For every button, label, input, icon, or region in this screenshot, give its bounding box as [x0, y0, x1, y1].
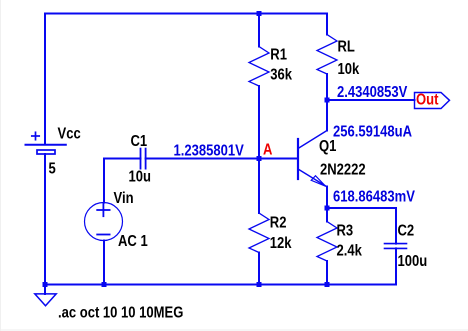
- junction node A: [257, 156, 262, 161]
- junction emitter node: [325, 206, 330, 211]
- svg-text:618.86483mV: 618.86483mV: [333, 189, 415, 206]
- junction bottom R2: [257, 282, 262, 287]
- resistor RL zigzag: [317, 35, 337, 75]
- resistor RL lead bottom: [326, 74, 328, 100]
- svg-text:1.2385801V: 1.2385801V: [174, 143, 245, 160]
- junction bottom Vin: [102, 282, 107, 287]
- junction out node: [325, 98, 330, 103]
- svg-text:256.59148uA: 256.59148uA: [333, 124, 412, 141]
- svg-text:RL: RL: [338, 39, 356, 56]
- resistor R3 zigzag: [317, 222, 337, 262]
- svg-text:36k: 36k: [270, 67, 292, 84]
- transistor Q1 base bar: [297, 139, 299, 179]
- capacitor C1 plate right: [145, 149, 147, 169]
- svg-text:10k: 10k: [338, 61, 360, 78]
- svg-text:AC 1: AC 1: [118, 233, 148, 250]
- emitter wire vertical: [326, 187, 328, 209]
- resistor R3 lead top: [326, 208, 328, 222]
- wire Vin top: [104, 159, 141, 203]
- junction bottom R3: [325, 282, 330, 287]
- junction bottom ground: [43, 282, 48, 287]
- svg-text:Vin: Vin: [114, 190, 134, 207]
- battery plus sign: [32, 132, 39, 139]
- svg-text:2.4340853V: 2.4340853V: [337, 84, 408, 101]
- svg-text:5: 5: [49, 161, 56, 178]
- wire top rail: [45, 13, 327, 15]
- wire Vin bottom: [103, 241, 105, 285]
- wire bottom rail: [45, 284, 396, 286]
- resistor R2 zigzag: [249, 213, 269, 253]
- resistor R1 zigzag: [249, 47, 269, 87]
- svg-text:.ac oct 10 10 10MEG: .ac oct 10 10 10MEG: [58, 305, 183, 322]
- battery V1 Vcc box plate: [37, 150, 55, 154]
- battery V1 Vcc plate: [26, 144, 66, 146]
- capacitor C1 plate left: [140, 149, 142, 169]
- bottom window edge strip: [1, 329, 468, 331]
- resistor R2 lead bottom: [258, 253, 260, 285]
- wire out node to flag: [327, 99, 415, 101]
- collector wire vertical: [326, 100, 328, 131]
- svg-text:2.4k: 2.4k: [337, 243, 362, 260]
- junction top rail R1: [257, 11, 262, 16]
- resistor R3 lead bottom: [326, 261, 328, 285]
- resistor R1 lead top: [258, 14, 260, 47]
- net flag Out outline: [415, 93, 450, 109]
- resistor R2 lead top: [258, 159, 260, 214]
- wire left vertical to battery: [44, 14, 46, 145]
- wire C2 bottom: [395, 248, 397, 284]
- svg-text:10u: 10u: [129, 169, 151, 186]
- wire battery to ground rail: [44, 154, 46, 285]
- svg-text:2N2222: 2N2222: [320, 162, 366, 179]
- svg-text:Out: Out: [416, 92, 439, 109]
- svg-text:Vcc: Vcc: [58, 126, 81, 143]
- Vin plus sign: [97, 204, 109, 216]
- svg-text:C2: C2: [398, 223, 415, 240]
- svg-text:C1: C1: [131, 133, 148, 150]
- svg-text:R1: R1: [270, 47, 287, 64]
- svg-text:12k: 12k: [270, 235, 292, 252]
- ground stub: [44, 285, 46, 295]
- wire emitter node to C2: [327, 208, 396, 244]
- svg-text:100u: 100u: [398, 253, 428, 270]
- voltage source Vin circle: [85, 203, 123, 241]
- wire C1 to node A and base: [146, 158, 298, 160]
- transistor Q1 emitter arrow: [311, 176, 325, 187]
- resistor R1 lead bottom: [258, 86, 260, 159]
- svg-text:A: A: [263, 142, 272, 159]
- transistor Q1 emitter diagonal: [298, 169, 327, 187]
- transistor Q1 collector diagonal: [298, 131, 327, 149]
- resistor RL lead top: [326, 14, 328, 35]
- capacitor C2 plate top: [385, 243, 407, 245]
- svg-text:R2: R2: [270, 215, 287, 232]
- ground symbol: [35, 294, 56, 306]
- capacitor C2 plate bottom: [385, 247, 407, 249]
- svg-text:R3: R3: [337, 223, 354, 240]
- Vin minus sign: [97, 234, 109, 236]
